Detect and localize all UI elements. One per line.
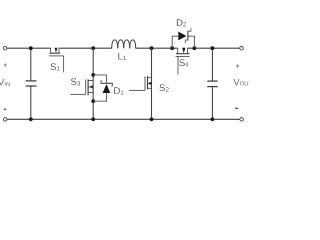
capacitor COUT — [207, 48, 217, 119]
node S2 bottom rail — [150, 117, 154, 121]
wire bottom rail — [7, 118, 240, 120]
svg-text:S2: S2 — [159, 83, 169, 94]
terminal input bottom — [3, 118, 7, 122]
terminal input top — [3, 46, 7, 50]
node COUT top — [211, 46, 215, 50]
transistor S1 — [49, 48, 63, 73]
inductor L1 — [112, 40, 136, 48]
node D2 left junction — [170, 46, 174, 50]
node CIN bottom — [29, 117, 33, 121]
wire top rail left — [7, 47, 51, 49]
node B — [150, 46, 154, 50]
node CIN top — [29, 46, 33, 50]
svg-text:+: + — [3, 60, 7, 69]
node S3 source junction — [91, 99, 95, 103]
node S3 bottom rail — [91, 117, 95, 121]
wire top rail right of inductor — [136, 47, 178, 49]
svg-text:L1: L1 — [118, 52, 127, 63]
label VOUT minus — [235, 107, 238, 109]
terminal output bottom — [240, 118, 244, 122]
transistor S3 — [70, 48, 93, 119]
label VIN minus — [4, 108, 7, 110]
diode D2 — [172, 28, 194, 48]
svg-text:S1: S1 — [50, 62, 60, 73]
wire top rail right — [187, 47, 239, 49]
svg-text:S3: S3 — [71, 77, 81, 88]
node S3 drain junction — [91, 73, 95, 77]
transistor S4 — [176, 48, 190, 75]
node D2 right junction — [193, 46, 197, 50]
capacitor CIN — [26, 48, 37, 119]
svg-text:VOUT: VOUT — [233, 77, 250, 88]
svg-text:VIN: VIN — [0, 78, 10, 89]
terminal output top — [240, 46, 244, 50]
svg-text:D1: D1 — [113, 86, 124, 97]
svg-text:D2: D2 — [176, 18, 187, 29]
wire top rail middle — [59, 47, 112, 49]
node A — [91, 46, 95, 50]
transistor S2 — [129, 48, 151, 119]
svg-text:S4: S4 — [179, 58, 189, 69]
diode D1 — [93, 75, 113, 101]
svg-text:+: + — [236, 61, 240, 70]
node COUT bottom — [211, 117, 215, 121]
